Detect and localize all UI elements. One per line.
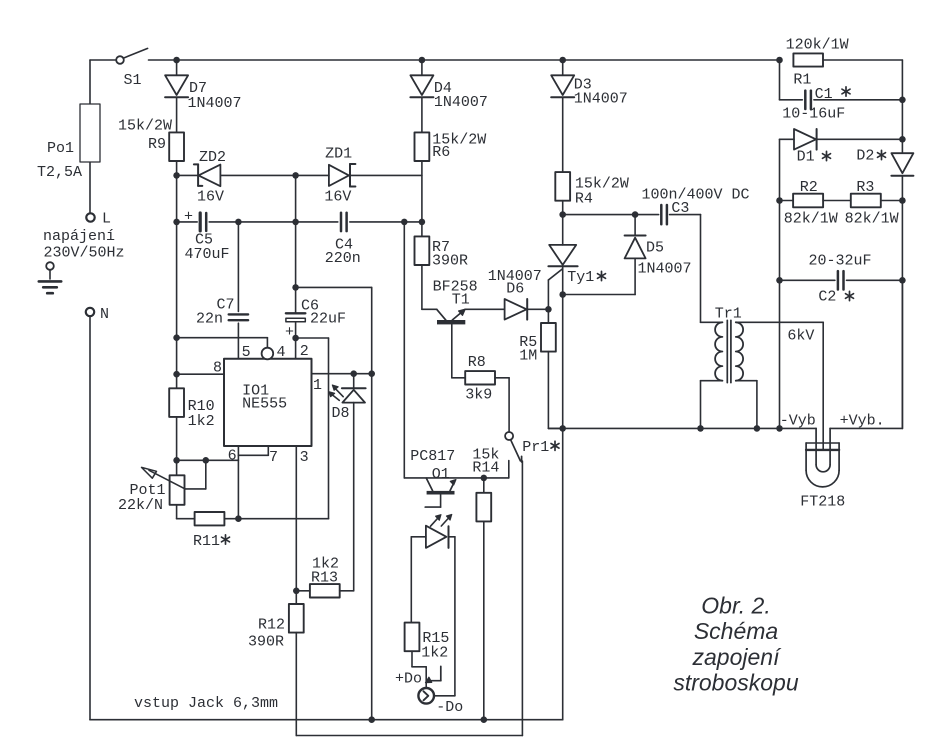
node C1 right dot [899,97,906,104]
resistor R1 [786,37,849,89]
wire R14 to bottom rail [483,521,485,719]
wire R2 R3 link [823,200,851,202]
resistor R15 [405,623,450,662]
resistor R13 [296,556,353,598]
wire R15 to plug [412,651,426,687]
label napajeni [43,228,125,261]
svg-text:D1: D1 [797,149,815,166]
zener ZD2 [177,149,296,206]
svg-text:470uF: 470uF [185,246,230,263]
svg-text:S1: S1 [124,72,142,89]
wire R1 bypass down [780,60,803,100]
svg-text:16V: 16V [324,189,351,206]
svg-text:390R: 390R [248,634,284,651]
svg-text:ZD2: ZD2 [199,149,226,166]
svg-text:D8: D8 [332,405,350,422]
wire C4 to optocoupler [404,222,509,478]
svg-text:120k/1W: 120k/1W [786,37,849,54]
wire C3 to Tr1 primary [701,215,723,323]
node D6 junction [545,306,552,313]
svg-text:Schéma: Schéma [694,618,778,644]
svg-text:R1: R1 [793,72,811,89]
svg-text:D6: D6 [506,281,524,298]
svg-text:NE555: NE555 [242,396,287,413]
wire mains L feed [89,60,91,213]
ground symbol [39,262,61,293]
svg-text:1N4007: 1N4007 [638,261,692,278]
pin 8 wire [177,360,224,377]
node pin2 junction [292,335,299,342]
optocoupler U O1 PC817 transistor [410,448,456,507]
svg-text:1M: 1M [519,348,537,365]
svg-text:vstup Jack 6,3mm: vstup Jack 6,3mm [134,695,278,712]
wire Tr1 primary bottom [701,381,723,429]
capacitor C6 [285,298,346,359]
led opto input [411,514,455,695]
wire Tr1 secondary top 6kV [736,322,823,450]
svg-text:stroboskopu: stroboskopu [673,670,799,696]
label plus Do [395,671,422,688]
wire R8 to Pr1 [495,378,509,432]
resistor R9 [118,97,184,161]
svg-text:6kV: 6kV [787,328,814,345]
diode D3 [551,60,628,108]
svg-text:R4: R4 [575,191,593,208]
svg-text:22n: 22n [196,311,223,328]
svg-text:100n/400V DC: 100n/400V DC [642,186,750,203]
label vstup jack [134,695,278,712]
wire R6 to R7 [421,161,423,236]
svg-text:1N4007: 1N4007 [574,91,628,108]
node pin1 dots [350,370,375,377]
resistor R8 [465,354,495,404]
wire zd to c5 row [295,175,297,222]
svg-text:10-16uF: 10-16uF [782,106,845,123]
wire N to jack frame [89,316,91,720]
diode D7 [165,60,241,112]
wire pin2 to R11 col [296,338,329,519]
svg-text:7: 7 [269,449,278,466]
resistor R2 [780,179,838,228]
svg-text:N: N [100,306,109,323]
connector plug -Do [418,666,463,716]
capacitor C7 [196,297,248,359]
svg-text:2: 2 [300,343,309,360]
node -Vyb dots [697,425,783,432]
resistor R4 [555,172,629,207]
svg-text:4: 4 [277,344,286,361]
svg-text:R3: R3 [856,179,874,196]
svg-text:15k/2W: 15k/2W [118,118,172,135]
IC U IO1 NE555 [224,359,312,446]
node C6 top junction [292,284,299,291]
wire D1 col down [779,139,781,428]
wire R7 to T1 base [422,265,437,309]
pin 3 wire [296,446,308,604]
capacitor C2 [780,253,903,306]
flash tube FT218 [800,428,845,510]
led D8 [329,374,366,591]
svg-text:+: + [184,209,193,226]
wire right edge top [901,60,903,153]
wire R12 to jack inner [296,461,522,736]
svg-text:R8: R8 [468,354,486,371]
diode D4 [410,60,488,111]
svg-text:napájení: napájení [43,228,115,245]
svg-text:C3: C3 [671,200,689,217]
svg-text:T1: T1 [452,292,470,309]
svg-text:R9: R9 [148,136,166,153]
diode D2 [856,148,913,429]
resistor R10 [169,388,214,430]
wire bottom rail [90,719,563,721]
svg-text:1k2: 1k2 [421,645,448,662]
wire R5 to Vyb rail [548,352,562,429]
node terminal L [86,211,111,228]
resistor R14 [472,447,499,522]
svg-text:R12: R12 [258,617,285,634]
node c5 row dots [235,219,425,226]
capacitor C4 [325,213,422,267]
svg-text:6: 6 [228,448,237,465]
wire led anode to R15 [410,537,412,623]
svg-text:D5: D5 [646,240,664,257]
wire C6top to D8 col [296,287,372,719]
node D5 top dot [632,211,639,218]
diode D5 [563,215,692,295]
resistor R3 [845,179,903,228]
diode D1 [780,129,903,166]
wire C6 top row [295,222,297,313]
wire -Vyb rail [548,413,816,430]
wire R10 to pot [176,417,178,475]
diode D6 [488,268,549,320]
svg-text:R2: R2 [800,179,818,196]
svg-text:+Do: +Do [395,671,422,688]
pin 5 wire [237,222,239,312]
svg-text:O1: O1 [432,466,450,483]
svg-text:16V: 16V [197,189,224,206]
svg-text:R6: R6 [432,144,450,161]
pin 7 wire [238,446,278,466]
svg-text:D2: D2 [856,148,874,165]
svg-text:230V/50Hz: 230V/50Hz [44,244,125,261]
node Ty1 cathode dots [559,291,566,432]
wire R4 to Ty1 [562,201,564,245]
svg-text:220n: 220n [325,250,361,267]
node C2 row dots [776,277,906,284]
capacitor C1 [782,86,902,123]
svg-text:5: 5 [242,344,251,361]
node R11 dot [235,515,242,522]
svg-text:1N4007: 1N4007 [434,94,488,111]
wire D3 to R4 [562,97,564,172]
resistor R12 [248,604,304,651]
svg-text:8: 8 [213,360,222,377]
svg-text:PC817: PC817 [410,448,455,465]
svg-text:Ty1: Ty1 [567,269,594,286]
svg-text:L: L [102,211,111,228]
svg-text:22uF: 22uF [310,311,346,328]
svg-text:1N4007: 1N4007 [188,95,242,112]
capacitor C5 [177,209,338,264]
node bottom rail dots [368,716,487,723]
svg-text:20-32uF: 20-32uF [809,253,872,270]
transistor Q T1 BF258 [433,279,505,378]
resistor R7 [415,236,469,269]
node C3 row dot [559,211,566,218]
svg-text:ZD1: ZD1 [325,146,352,163]
svg-text:R14: R14 [472,460,499,477]
thyristor Ty1 [548,245,605,309]
node R2 row dots [776,197,906,204]
svg-text:Pr1: Pr1 [522,439,549,456]
resistor R6 [415,97,487,161]
node R13 dot [293,588,300,595]
switch Pr1 [505,432,559,478]
wire Tr1 secondary bottom [736,381,757,429]
svg-text:Obr. 2.: Obr. 2. [701,592,770,618]
svg-text:82k/1W: 82k/1W [784,211,838,228]
caption Obr 2 [673,592,799,695]
wire reset row [177,338,268,348]
pin 2 label [300,343,309,360]
svg-text:22k/N: 22k/N [118,497,163,514]
pin 4 bubble [262,344,286,361]
svg-text:Tr1: Tr1 [715,306,742,323]
wire left column [176,161,178,388]
resistor R11 [193,512,230,550]
fuse Po1 [37,104,100,181]
svg-text:T2,5A: T2,5A [37,164,82,181]
svg-text:-Vyb: -Vyb [780,413,816,430]
zener ZD1 [296,146,422,206]
transformer Tr1 [715,306,743,383]
svg-text:82k/1W: 82k/1W [845,211,899,228]
node pin6 row dots [173,457,209,464]
svg-text:C2: C2 [818,289,836,306]
wire +Vyb rail [830,280,902,429]
wire pot to R11 [177,505,195,519]
svg-text:C1: C1 [815,86,833,103]
svg-text:+Vyb.: +Vyb. [840,413,885,430]
node terminal N [86,306,109,323]
wire R11 to pin2 col [224,518,328,520]
wire top rail [149,59,903,61]
svg-text:-Do: -Do [436,699,463,716]
svg-text:3k9: 3k9 [465,387,492,404]
node R14 top dot [481,475,488,482]
svg-text:1: 1 [313,377,322,394]
wire pin6 row [177,459,239,461]
svg-text:R13: R13 [311,570,338,587]
capacitor C3 [563,186,750,224]
node zd junction [292,172,299,179]
svg-text:FT218: FT218 [800,494,845,511]
node left col dots [173,172,180,377]
pin 1 wire [312,374,372,394]
potentiometer Pot1 [118,460,206,514]
svg-text:zapojení: zapojení [692,644,783,670]
node D1 right dot [899,136,906,143]
svg-text:R11: R11 [193,533,220,550]
svg-text:Po1: Po1 [47,140,74,157]
svg-text:3: 3 [300,449,309,466]
resistor R5 [519,309,556,364]
svg-text:1k2: 1k2 [188,413,215,430]
pin 6 wire [228,446,239,519]
switch S1 [90,48,148,89]
pin 5 label [242,344,251,361]
node rail junctions [173,57,783,64]
wire Ty1 cathode down [562,266,564,720]
svg-text:390R: 390R [432,253,468,270]
